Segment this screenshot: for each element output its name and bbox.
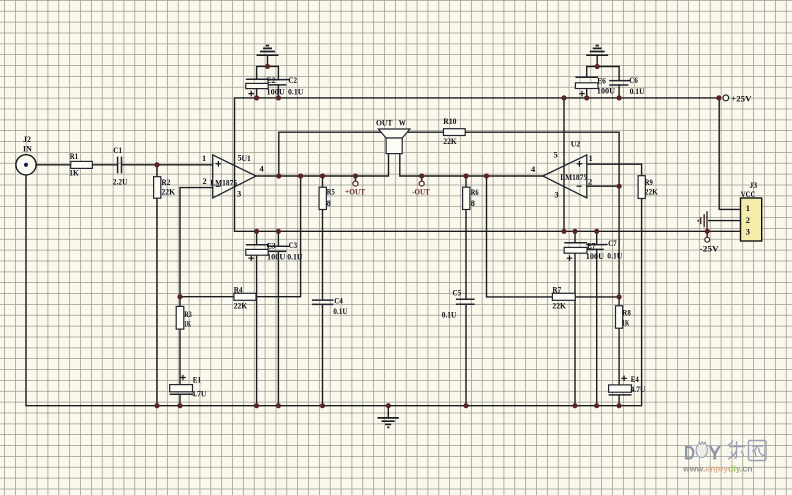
svg-text:+25V: +25V	[731, 95, 751, 104]
svg-text:100U: 100U	[267, 88, 285, 97]
svg-text:100U: 100U	[267, 252, 285, 261]
svg-text:J2: J2	[23, 135, 31, 144]
svg-text:22K: 22K	[162, 188, 176, 197]
svg-text:C5: C5	[453, 289, 462, 298]
svg-text:1K: 1K	[184, 320, 191, 329]
svg-text:0.1U: 0.1U	[333, 307, 348, 316]
svg-text:0.1U: 0.1U	[288, 88, 303, 97]
svg-text:E1: E1	[193, 376, 201, 385]
svg-text:22K: 22K	[645, 188, 658, 197]
svg-text:-OUT: -OUT	[412, 188, 430, 197]
svg-text:100U: 100U	[597, 87, 615, 96]
svg-text:C2: C2	[288, 76, 297, 85]
svg-text:www.enjoydiy.cn: www.enjoydiy.cn	[682, 464, 753, 474]
svg-text:Y: Y	[708, 443, 721, 465]
svg-text:C6: C6	[629, 76, 638, 85]
svg-text:C7: C7	[608, 239, 617, 248]
svg-text:C4: C4	[334, 297, 343, 306]
svg-text:-25V: -25V	[700, 245, 719, 254]
svg-text:R5: R5	[327, 188, 335, 197]
svg-text:R3: R3	[184, 310, 192, 319]
svg-text:D: D	[684, 442, 695, 464]
svg-text:2: 2	[746, 216, 750, 225]
svg-text:R7: R7	[552, 286, 561, 295]
svg-text:R1: R1	[70, 152, 78, 161]
svg-text:LM1875: LM1875	[560, 173, 587, 182]
svg-text:2: 2	[588, 178, 592, 187]
svg-text:E7: E7	[587, 242, 596, 251]
svg-text:E2: E2	[267, 76, 276, 85]
svg-text:R9: R9	[645, 178, 653, 187]
svg-text:0.1U: 0.1U	[442, 311, 457, 320]
svg-text:W: W	[399, 119, 407, 128]
svg-text:C1: C1	[113, 146, 122, 155]
svg-text:3: 3	[555, 191, 559, 200]
svg-text:E6: E6	[597, 77, 606, 86]
svg-text:1: 1	[589, 154, 593, 163]
svg-text:VCC: VCC	[741, 190, 756, 199]
svg-text:R2: R2	[162, 178, 171, 187]
svg-text:E4: E4	[631, 375, 640, 384]
svg-text:0.1U: 0.1U	[630, 87, 645, 96]
svg-text:3: 3	[237, 190, 241, 199]
svg-text:3: 3	[746, 228, 750, 237]
svg-text:J3: J3	[749, 181, 757, 190]
svg-text:+OUT: +OUT	[345, 188, 366, 197]
svg-text:22K: 22K	[552, 302, 566, 311]
svg-text:22K: 22K	[443, 137, 457, 146]
svg-text:1K: 1K	[69, 169, 79, 178]
svg-text:R4: R4	[234, 286, 243, 295]
svg-text:4.7U: 4.7U	[192, 390, 207, 399]
svg-text:0.1U: 0.1U	[607, 252, 622, 261]
svg-text:R10: R10	[443, 117, 456, 126]
svg-text:R8: R8	[622, 309, 631, 318]
svg-text:2: 2	[203, 177, 207, 186]
svg-text:E3: E3	[267, 242, 276, 251]
svg-text:LM1875: LM1875	[210, 179, 237, 188]
svg-text:IN: IN	[23, 145, 32, 154]
svg-text:8: 8	[327, 199, 331, 208]
svg-text:4.7U: 4.7U	[631, 385, 646, 394]
svg-text:1: 1	[746, 204, 750, 213]
svg-text:1: 1	[202, 154, 206, 163]
svg-text:U2: U2	[571, 139, 580, 148]
svg-text:R6: R6	[471, 188, 479, 197]
svg-text:1K: 1K	[622, 319, 629, 328]
svg-text:8: 8	[471, 199, 475, 208]
svg-text:OUT: OUT	[376, 119, 393, 128]
svg-text:C3: C3	[289, 241, 298, 250]
svg-text:100U: 100U	[586, 252, 604, 261]
svg-text:2.2U: 2.2U	[113, 178, 128, 187]
svg-text:5: 5	[554, 151, 558, 160]
svg-text:U1: U1	[242, 154, 251, 163]
svg-text:22K: 22K	[234, 302, 248, 311]
svg-text:0.1U: 0.1U	[287, 252, 302, 261]
